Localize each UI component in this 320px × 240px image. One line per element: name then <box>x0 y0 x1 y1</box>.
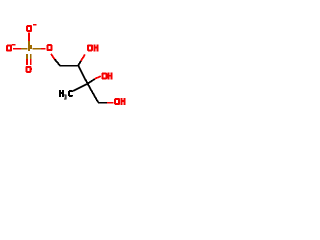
atom O- top <box>26 25 32 32</box>
bond C2-C1 <box>88 84 99 103</box>
group OH bottom <box>114 98 120 105</box>
bond C3-C2 <box>78 66 87 84</box>
bond P-O(top) <box>28 32 30 41</box>
bond C2-OH(mid) <box>88 79 95 84</box>
atom O- left <box>6 45 12 52</box>
bond C4-C3 <box>60 65 79 67</box>
bond C3-OH(top) <box>78 61 81 65</box>
atom O double-bonded <box>25 66 31 73</box>
group OH mid <box>101 73 107 80</box>
bond C2-CH3 <box>73 84 88 91</box>
group OH top <box>87 44 93 51</box>
group H3C <box>59 90 64 97</box>
bond P=O double line left <box>26 54 28 59</box>
bond P-O(bridge) <box>32 48 41 50</box>
bond P-O(left) <box>13 48 21 50</box>
bond P=O double line right <box>30 54 32 59</box>
bond O(bridge)-C4 <box>51 54 55 59</box>
atom O bridge <box>47 44 53 51</box>
bond C1-OH(bottom) <box>98 102 107 104</box>
atom P <box>28 45 32 51</box>
